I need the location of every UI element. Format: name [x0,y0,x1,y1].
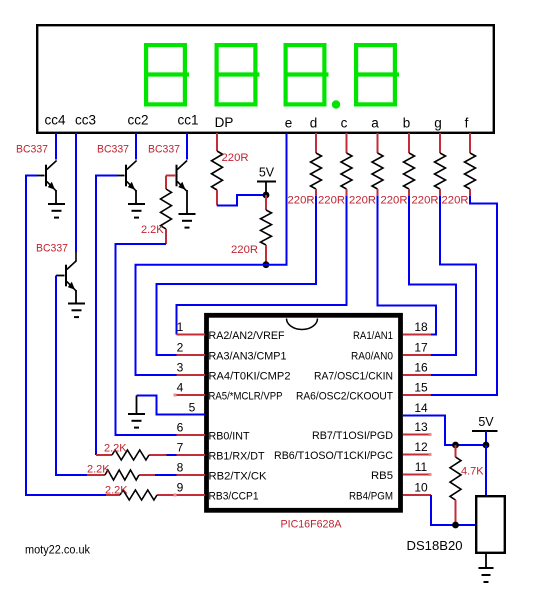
resistor 220R segment g [435,153,446,189]
7-segment digit 2 [215,45,260,104]
pin 5 wire to ground [137,396,206,415]
transistor Q1 BC337 [45,165,47,187]
svg-text:1: 1 [177,320,184,334]
pin 1 stub [177,334,206,336]
node 5V junction [483,442,490,449]
pin 18 stub [403,334,431,336]
7-segment digit 3 [284,45,329,104]
pin 3 stub [177,374,206,376]
wire 2.2K bottom stub [165,229,167,244]
wire cc4 to Q1 collector [55,133,57,160]
pin 11 stub [403,474,430,476]
transistor Q4 BC337 [75,252,77,261]
wire DP top stub [216,133,218,151]
display module box [37,25,494,133]
pin 2 stub [177,354,206,356]
svg-text:220R: 220R [288,195,315,207]
wire 5V to DS18B20 VDD [485,445,487,496]
wire segment d bottom stub [315,189,317,196]
svg-text:PIC16F628A: PIC16F628A [281,519,343,531]
wire segment b top stub [408,133,410,153]
ground Q4 [68,303,85,305]
svg-text:a: a [371,116,379,131]
wire 2.2K top stub [165,176,167,190]
IC U1 PIC16F628A body [207,315,401,510]
wire Q1 base lead [37,175,45,177]
svg-text:RB1/RX/DT: RB1/RX/DT [209,451,265,463]
7-segment digit 4 [354,45,399,104]
transistor Q3 BC337 [176,165,178,187]
svg-text:RB2/TX/CK: RB2/TX/CK [209,471,268,483]
svg-text:18: 18 [414,320,428,334]
pin 9 stub [106,494,120,496]
svg-text:4.7K: 4.7K [461,466,484,478]
svg-text:b: b [403,116,411,131]
svg-text:5: 5 [189,401,196,415]
svg-text:BC337: BC337 [97,144,129,156]
resistor 220R segment b [404,153,415,189]
wire cc3 to Q4 collector [75,133,77,252]
svg-text:e: e [285,116,293,131]
wire segment c top stub [346,133,348,153]
pin 10 stub [403,494,431,496]
svg-text:RA1/AN1: RA1/AN1 [353,330,393,342]
svg-text:4: 4 [177,381,184,395]
svg-text:220R: 220R [381,195,408,207]
wire segment b to pin17 [409,196,456,355]
wire segment a bottom stub [377,189,379,196]
resistor 2.2K (pin7) [112,450,149,460]
svg-text:g: g [434,116,442,131]
svg-text:DP: DP [215,115,234,130]
svg-text:2: 2 [177,341,184,355]
ground Q2 [128,203,145,205]
ground pin5 [136,396,138,414]
svg-text:RB5: RB5 [371,470,393,482]
wire segment d top stub [315,133,317,153]
svg-text:cc3: cc3 [75,113,96,128]
wire pull-up top stub [265,195,267,210]
wire segment f top stub [469,133,471,153]
wire cc1 to Q3 collector [186,133,188,160]
svg-text:13: 13 [414,420,428,434]
svg-text:8: 8 [177,461,184,475]
wire Q3 base stub [166,175,176,177]
svg-text:RB0/INT: RB0/INT [209,431,250,443]
wire DP bottom stub [216,190,218,206]
resistor 220R segment f [465,153,476,189]
svg-text:RA5/*MCLR/VPP: RA5/*MCLR/VPP [209,391,283,403]
wire segment e to pin3 [136,133,287,375]
wire pin10 to DS18B20 data [431,495,476,525]
svg-text:2.2K: 2.2K [87,464,110,476]
wire Q2 base to pin7 row [96,176,118,456]
wire segment g top stub [439,133,441,153]
svg-text:RA0/AN0: RA0/AN0 [351,351,393,363]
wire segment f to pin15 [431,196,497,395]
wire DP to 5V node [217,195,267,206]
wire Q4 base to pin8 row [56,276,87,476]
wire Q2 base lead [118,175,125,177]
svg-text:RA3/AN3/CMP1: RA3/AN3/CMP1 [209,351,287,363]
resistor 220R segment c [341,153,352,189]
wire Q4 base lead [56,275,65,277]
ground Q1 [55,203,57,204]
wire segment c bottom stub [346,189,348,196]
svg-text:BC337: BC337 [16,144,48,156]
sensor DS18B20 body [476,496,505,553]
decimal point [332,100,340,108]
transistor Q2 BC337 [125,165,127,187]
svg-text:5V: 5V [259,166,275,180]
svg-text:RA2/AN2/VREF: RA2/AN2/VREF [209,330,285,342]
resistor 220R segment a [372,153,383,189]
svg-text:6: 6 [177,421,184,435]
wire pull-up bottom stub [265,245,267,265]
pin 8 stub [87,474,105,476]
wire segment a top stub [377,133,379,153]
wire 2.2K to pin6 row [116,244,177,435]
svg-text:16: 16 [414,361,428,375]
node 4.7K top junction [452,442,459,449]
pin 16 stub [403,374,431,376]
wire segment a to pin18 [378,196,437,335]
pin 6 stub [177,434,206,436]
wire Q1 base to pin9 row [26,176,106,496]
wire 4.7K bottom stub [455,500,457,523]
wire segment g to pin16 [431,196,476,375]
resistor 220R segment d [311,153,322,189]
svg-text:220R: 220R [349,195,376,207]
svg-text:14: 14 [414,401,428,415]
svg-text:10: 10 [414,481,428,495]
svg-text:RB6/T1OSO/T1CKI/PGC: RB6/T1OSO/T1CKI/PGC [274,450,393,462]
svg-text:7: 7 [177,441,184,455]
svg-text:220R: 220R [442,195,469,207]
svg-text:9: 9 [177,481,184,495]
7-segment digit 1 [144,45,189,104]
svg-text:11: 11 [415,460,428,474]
wire pin14 VDD to 5V rail [403,416,486,446]
wire cc2 to Q2 collector [135,133,137,160]
wire 4.7K top stub [455,445,457,457]
svg-text:12: 12 [414,440,428,454]
wire segment f bottom stub [469,189,471,196]
svg-text:RB4/PGM: RB4/PGM [349,491,393,503]
svg-text:c: c [341,116,348,131]
wire segment d to pin2 [157,196,317,355]
svg-text:RA6/OSC2/CKOOUT: RA6/OSC2/CKOOUT [296,391,393,403]
svg-text:f: f [465,116,469,131]
wire segment g bottom stub [439,189,441,196]
pin 17 stub [403,354,431,356]
ground DS18B20 [479,567,494,569]
svg-text:5V: 5V [478,415,494,429]
svg-text:DS18B20: DS18B20 [407,538,463,553]
svg-text:BC337: BC337 [148,144,180,156]
node data junction [452,522,459,529]
svg-text:220R: 220R [318,195,345,207]
svg-text:220R: 220R [412,195,439,207]
svg-text:cc4: cc4 [44,113,66,128]
svg-text:RA4/T0KI/CMP2: RA4/T0KI/CMP2 [209,371,291,383]
svg-text:RB7/T1OSI/PGD: RB7/T1OSI/PGD [312,430,393,442]
resistor 220R DP [212,151,223,190]
svg-text:17: 17 [414,341,428,355]
resistor 2.2K (Q3 base) [161,189,172,229]
IC notch [287,319,318,330]
svg-text:cc1: cc1 [177,113,198,128]
svg-text:RB3/CCP1: RB3/CCP1 [209,491,259,503]
wire segment b bottom stub [408,189,410,196]
svg-text:RA7/OSC1/CKIN: RA7/OSC1/CKIN [314,371,393,383]
resistor 2.2K (pin8) [105,470,139,480]
svg-text:2.2K: 2.2K [104,443,127,455]
resistor 220R pull-up [261,210,272,245]
svg-text:BC337: BC337 [36,243,68,255]
wire DS18B20 GND lead [485,554,487,568]
svg-text:220R: 220R [231,244,258,256]
pin 4 stub [175,394,205,396]
svg-text:moty22.co.uk: moty22.co.uk [25,545,90,557]
svg-text:cc2: cc2 [127,113,148,128]
svg-text:3: 3 [177,361,184,375]
svg-text:2.2K: 2.2K [141,224,164,236]
node 5V/DP junction [263,192,270,199]
pin 12 stub [403,454,430,456]
svg-text:220R: 220R [222,152,249,164]
resistor 4.7K [450,457,461,500]
resistor 2.2K (pin9) [120,490,157,500]
svg-text:2.2K: 2.2K [105,485,128,497]
svg-text:15: 15 [414,381,428,395]
pin 7 stub [96,454,112,456]
svg-text:d: d [310,116,318,131]
pin 15 stub [403,394,431,396]
ground Q3 [179,213,196,215]
pin 13 stub [403,434,430,436]
node pull-up to e-line junction [263,261,270,268]
wire segment c to pin1 [177,196,347,335]
